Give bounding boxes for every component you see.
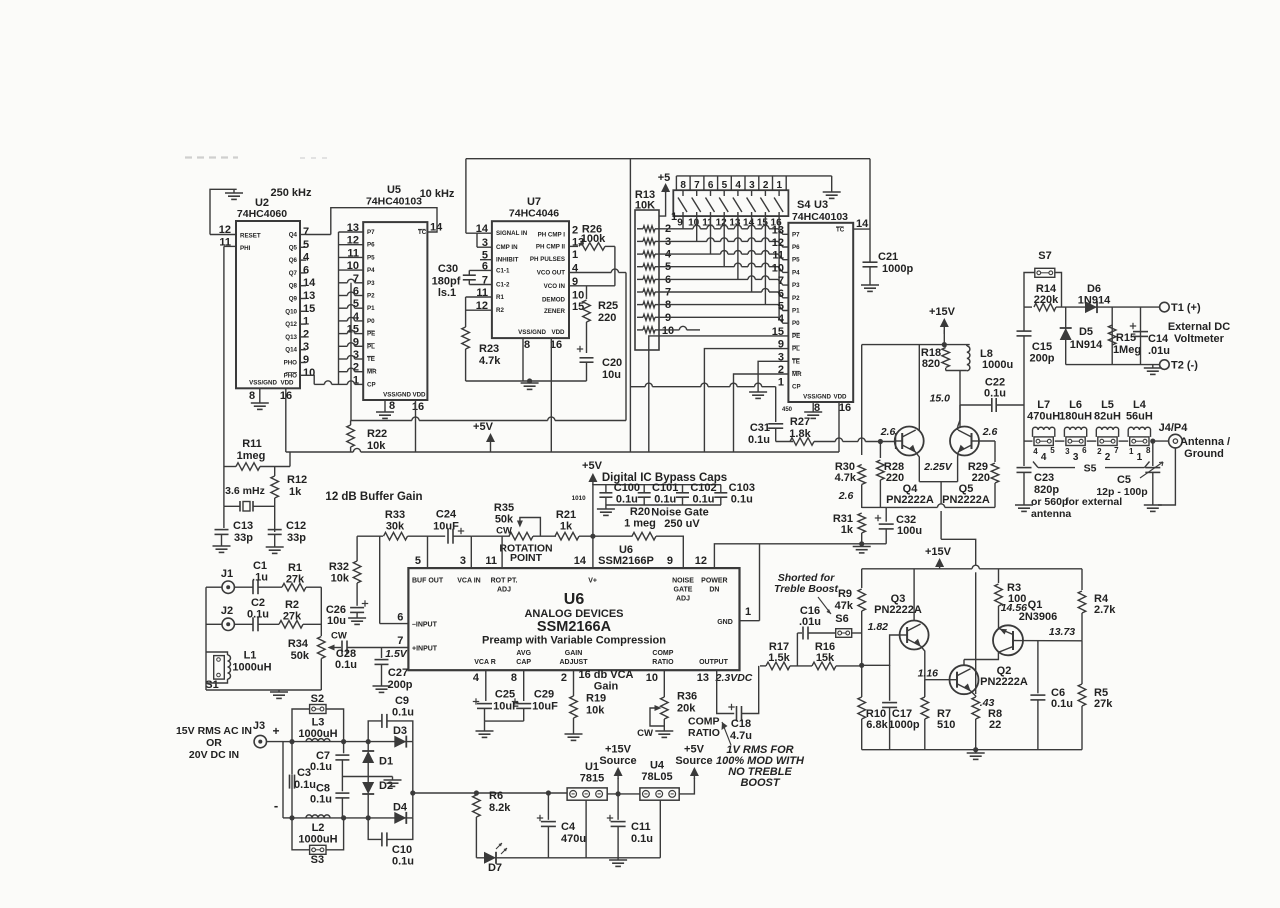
svg-text:2: 2 bbox=[1097, 447, 1102, 456]
svg-text:+15V: +15V bbox=[929, 306, 956, 318]
svg-text:Q13: Q13 bbox=[285, 334, 297, 341]
svg-text:MR: MR bbox=[367, 369, 377, 376]
svg-text:VSS/GND: VSS/GND bbox=[518, 329, 546, 336]
svg-text:PHO: PHO bbox=[284, 372, 298, 379]
svg-text:10uF: 10uF bbox=[433, 521, 459, 533]
svg-text:22: 22 bbox=[989, 719, 1001, 731]
svg-text:CW: CW bbox=[637, 728, 653, 739]
svg-text:Ground: Ground bbox=[1184, 448, 1224, 460]
svg-text:10: 10 bbox=[303, 367, 315, 379]
svg-text:P2: P2 bbox=[792, 295, 800, 302]
svg-text:TC: TC bbox=[836, 227, 845, 234]
svg-text:L2: L2 bbox=[312, 822, 325, 834]
svg-text:Q14: Q14 bbox=[285, 347, 297, 354]
svg-text:POINT: POINT bbox=[510, 552, 543, 564]
svg-text:0.1u: 0.1u bbox=[335, 659, 357, 671]
svg-text:0.1u: 0.1u bbox=[631, 833, 653, 845]
svg-text:C5: C5 bbox=[1117, 474, 1131, 486]
svg-text:12p - 100p: 12p - 100p bbox=[1096, 486, 1147, 498]
svg-text:11: 11 bbox=[485, 555, 497, 567]
svg-text:ls.1: ls.1 bbox=[438, 287, 456, 299]
svg-text:R34: R34 bbox=[288, 638, 309, 650]
svg-text:6: 6 bbox=[397, 612, 403, 624]
svg-text:C102: C102 bbox=[690, 482, 716, 494]
svg-text:VCA IN: VCA IN bbox=[457, 578, 480, 585]
svg-text:+15V: +15V bbox=[925, 546, 952, 558]
svg-text:200p: 200p bbox=[387, 679, 412, 691]
svg-text:VSS/GND: VSS/GND bbox=[383, 392, 411, 399]
svg-text:R32: R32 bbox=[329, 561, 349, 573]
svg-text:R27: R27 bbox=[790, 416, 810, 428]
svg-text:P3: P3 bbox=[367, 280, 375, 287]
svg-text:3.6 mHz: 3.6 mHz bbox=[225, 485, 265, 497]
svg-text:13: 13 bbox=[303, 290, 315, 302]
svg-text:820: 820 bbox=[922, 358, 940, 370]
svg-text:C25: C25 bbox=[495, 689, 515, 701]
svg-text:1: 1 bbox=[745, 606, 751, 618]
svg-text:16: 16 bbox=[412, 401, 424, 413]
svg-text:INHIBIT: INHIBIT bbox=[496, 257, 519, 264]
svg-text:C1-2: C1-2 bbox=[496, 282, 510, 289]
svg-text:74HC4046: 74HC4046 bbox=[509, 208, 559, 220]
svg-text:P0: P0 bbox=[792, 320, 800, 327]
svg-text:R6: R6 bbox=[489, 790, 503, 802]
svg-text:250 kHz: 250 kHz bbox=[271, 187, 312, 199]
svg-text:4: 4 bbox=[473, 672, 480, 684]
svg-text:470uH: 470uH bbox=[1027, 411, 1060, 423]
svg-text:510: 510 bbox=[937, 719, 955, 731]
svg-text:VCO IN: VCO IN bbox=[544, 283, 566, 290]
svg-text:RESET: RESET bbox=[240, 233, 261, 240]
svg-text:8: 8 bbox=[249, 390, 255, 402]
svg-text:T2 (-): T2 (-) bbox=[1171, 360, 1198, 372]
svg-text:PH CMP II: PH CMP II bbox=[536, 243, 565, 250]
svg-text:7: 7 bbox=[303, 226, 309, 238]
svg-text:2.6: 2.6 bbox=[880, 426, 896, 438]
svg-text:P6: P6 bbox=[367, 242, 375, 249]
svg-text:VCO OUT: VCO OUT bbox=[537, 270, 565, 277]
svg-text:L1: L1 bbox=[244, 650, 257, 662]
svg-text:4.7k: 4.7k bbox=[479, 355, 501, 367]
svg-text:U6: U6 bbox=[564, 591, 585, 608]
svg-text:100k: 100k bbox=[581, 233, 606, 245]
svg-text:CMP IN: CMP IN bbox=[496, 244, 518, 251]
svg-text:Q10: Q10 bbox=[285, 308, 297, 315]
svg-text:16 db VCA: 16 db VCA bbox=[578, 669, 633, 681]
svg-text:S6: S6 bbox=[835, 613, 848, 625]
svg-text:L3: L3 bbox=[312, 717, 325, 729]
svg-text:TC: TC bbox=[418, 229, 427, 236]
svg-text:1: 1 bbox=[1129, 447, 1134, 456]
svg-text:78L05: 78L05 bbox=[641, 771, 672, 783]
svg-text:6: 6 bbox=[1082, 446, 1087, 455]
svg-text:P4: P4 bbox=[367, 267, 375, 274]
svg-text:CW: CW bbox=[496, 526, 512, 537]
svg-text:PE: PE bbox=[367, 331, 375, 338]
svg-text:0.1u: 0.1u bbox=[616, 494, 638, 506]
svg-text:DN: DN bbox=[709, 587, 719, 594]
svg-text:Source: Source bbox=[599, 755, 636, 767]
svg-text:1k: 1k bbox=[560, 521, 573, 533]
svg-text:220k: 220k bbox=[1034, 294, 1059, 306]
svg-text:2: 2 bbox=[572, 225, 578, 237]
svg-text:14: 14 bbox=[303, 277, 316, 289]
svg-text:15.0: 15.0 bbox=[930, 393, 951, 405]
svg-text:S4: S4 bbox=[797, 199, 811, 211]
svg-text:0.1u: 0.1u bbox=[1051, 698, 1073, 710]
svg-text:MR: MR bbox=[792, 371, 802, 378]
svg-text:7: 7 bbox=[1114, 446, 1119, 455]
svg-text:3: 3 bbox=[303, 341, 309, 353]
svg-text:Noise Gate: Noise Gate bbox=[651, 507, 708, 519]
svg-text:47k: 47k bbox=[835, 600, 854, 612]
svg-text:antenna: antenna bbox=[1031, 508, 1071, 520]
svg-text:P5: P5 bbox=[792, 257, 800, 264]
svg-text:T1 (+): T1 (+) bbox=[1171, 302, 1201, 314]
svg-text:P1: P1 bbox=[792, 308, 800, 315]
svg-text:4.7u: 4.7u bbox=[730, 730, 752, 742]
svg-text:J1: J1 bbox=[221, 568, 233, 580]
svg-text:R21: R21 bbox=[556, 509, 576, 521]
svg-text:P5: P5 bbox=[367, 254, 375, 261]
svg-text:1.5V: 1.5V bbox=[385, 648, 408, 660]
svg-text:TE: TE bbox=[367, 356, 375, 363]
svg-text:Q7: Q7 bbox=[289, 270, 298, 277]
svg-text:OUTPUT: OUTPUT bbox=[699, 659, 729, 666]
svg-text:1010: 1010 bbox=[572, 495, 587, 502]
svg-text:C101: C101 bbox=[652, 482, 678, 494]
svg-text:2: 2 bbox=[303, 328, 309, 340]
svg-text:4.7k: 4.7k bbox=[835, 472, 857, 484]
svg-text:6.8k: 6.8k bbox=[866, 719, 888, 731]
svg-text:5: 5 bbox=[1050, 446, 1055, 455]
svg-text:5: 5 bbox=[778, 301, 784, 313]
svg-text:R22: R22 bbox=[367, 428, 387, 440]
svg-text:P7: P7 bbox=[792, 231, 800, 238]
svg-text:8: 8 bbox=[524, 339, 530, 351]
svg-text:R25: R25 bbox=[598, 300, 618, 312]
svg-text:GAIN: GAIN bbox=[565, 650, 583, 657]
svg-text:U7: U7 bbox=[527, 196, 541, 208]
svg-text:+5V: +5V bbox=[684, 744, 705, 756]
svg-text:R35: R35 bbox=[494, 502, 514, 514]
svg-text:250 uV: 250 uV bbox=[664, 518, 700, 530]
svg-text:1000p: 1000p bbox=[882, 263, 913, 275]
svg-text:SIGNAL IN: SIGNAL IN bbox=[496, 230, 528, 237]
svg-text:1meg: 1meg bbox=[237, 450, 266, 462]
svg-text:R2: R2 bbox=[285, 599, 299, 611]
svg-text:27k: 27k bbox=[286, 574, 305, 586]
svg-text:COMP: COMP bbox=[688, 716, 720, 728]
svg-text:1: 1 bbox=[1137, 452, 1143, 463]
svg-text:13: 13 bbox=[697, 672, 709, 684]
svg-text:L4: L4 bbox=[1133, 399, 1147, 411]
svg-text:D1: D1 bbox=[379, 756, 393, 768]
svg-text:2.6: 2.6 bbox=[838, 490, 854, 502]
svg-text:5: 5 bbox=[415, 555, 421, 567]
svg-text:9: 9 bbox=[667, 555, 673, 567]
svg-text:Q12: Q12 bbox=[285, 321, 297, 328]
svg-text:2.3VDC: 2.3VDC bbox=[715, 672, 753, 684]
svg-text:1: 1 bbox=[572, 249, 578, 261]
svg-text:2.6: 2.6 bbox=[982, 426, 998, 438]
svg-text:V+: V+ bbox=[588, 578, 597, 585]
svg-text:12: 12 bbox=[772, 237, 784, 249]
svg-text:1k: 1k bbox=[841, 524, 854, 536]
svg-text:PHO: PHO bbox=[284, 360, 298, 367]
svg-text:3: 3 bbox=[460, 555, 466, 567]
svg-text:12: 12 bbox=[695, 555, 707, 567]
svg-text:D4: D4 bbox=[393, 802, 408, 814]
svg-text:P6: P6 bbox=[792, 244, 800, 251]
svg-text:8: 8 bbox=[389, 400, 395, 412]
svg-text:10k: 10k bbox=[331, 573, 350, 585]
svg-text:C31: C31 bbox=[750, 422, 770, 434]
svg-text:R1: R1 bbox=[496, 294, 504, 301]
svg-text:0.1u: 0.1u bbox=[294, 779, 316, 791]
svg-text:50k: 50k bbox=[291, 650, 310, 662]
svg-text:74HC40103: 74HC40103 bbox=[792, 211, 848, 223]
svg-text:1.5k: 1.5k bbox=[768, 652, 790, 664]
svg-text:VSS/GND: VSS/GND bbox=[249, 380, 277, 387]
svg-text:C1-1: C1-1 bbox=[496, 267, 510, 274]
svg-text:20V DC IN: 20V DC IN bbox=[189, 749, 239, 761]
svg-text:0.1u: 0.1u bbox=[392, 707, 414, 719]
svg-text:+INPUT: +INPUT bbox=[412, 646, 438, 653]
svg-text:AVG: AVG bbox=[516, 650, 531, 657]
svg-text:15: 15 bbox=[572, 301, 584, 313]
svg-text:27k: 27k bbox=[283, 611, 302, 623]
svg-text:16: 16 bbox=[839, 402, 851, 414]
svg-text:56uH: 56uH bbox=[1126, 411, 1153, 423]
svg-text:Source: Source bbox=[675, 755, 712, 767]
svg-text:S5: S5 bbox=[1084, 463, 1097, 475]
svg-text:Treble Boost: Treble Boost bbox=[774, 583, 838, 595]
svg-text:D3: D3 bbox=[393, 725, 407, 737]
svg-text:D5: D5 bbox=[1079, 326, 1093, 338]
svg-text:VSS/GND: VSS/GND bbox=[803, 394, 831, 401]
svg-text:7: 7 bbox=[778, 275, 784, 287]
svg-text:Antenna /: Antenna / bbox=[1180, 436, 1230, 448]
svg-text:0.1u: 0.1u bbox=[692, 494, 714, 506]
svg-text:DEMOD: DEMOD bbox=[542, 297, 566, 304]
svg-text:2.25V: 2.25V bbox=[923, 461, 952, 473]
svg-text:D7: D7 bbox=[488, 862, 502, 874]
svg-text:12 dB Buffer Gain: 12 dB Buffer Gain bbox=[325, 491, 422, 503]
svg-text:450: 450 bbox=[782, 407, 793, 413]
svg-text:10k: 10k bbox=[367, 440, 386, 452]
svg-text:27k: 27k bbox=[1094, 698, 1113, 710]
svg-text:+: + bbox=[272, 724, 279, 738]
svg-text:D6: D6 bbox=[1087, 283, 1101, 295]
svg-text:ROT PT.: ROT PT. bbox=[491, 578, 518, 585]
svg-text:7: 7 bbox=[397, 635, 403, 647]
svg-text:C14: C14 bbox=[1148, 333, 1169, 345]
svg-text:+5V: +5V bbox=[473, 421, 494, 433]
svg-text:C27: C27 bbox=[388, 667, 408, 679]
svg-text:2.7k: 2.7k bbox=[1094, 604, 1116, 616]
svg-text:C12: C12 bbox=[286, 520, 306, 532]
svg-text:R11: R11 bbox=[242, 438, 262, 450]
svg-text:BOOST: BOOST bbox=[740, 777, 780, 789]
svg-text:CP: CP bbox=[367, 381, 376, 388]
svg-text:L7: L7 bbox=[1037, 399, 1050, 411]
svg-text:L6: L6 bbox=[1069, 399, 1082, 411]
svg-text:1: 1 bbox=[671, 211, 677, 223]
svg-text:10: 10 bbox=[646, 672, 658, 684]
svg-text:SSM2166P: SSM2166P bbox=[598, 555, 654, 567]
svg-text:200p: 200p bbox=[1029, 353, 1054, 365]
svg-text:+15V: +15V bbox=[605, 744, 632, 756]
svg-text:4: 4 bbox=[1041, 452, 1047, 463]
svg-text:PN2222A: PN2222A bbox=[886, 494, 934, 506]
svg-text:10: 10 bbox=[572, 290, 584, 302]
svg-text:4: 4 bbox=[303, 252, 310, 264]
svg-text:PN2222A: PN2222A bbox=[942, 494, 990, 506]
svg-text:0.1u: 0.1u bbox=[748, 434, 770, 446]
svg-text:External DC: External DC bbox=[1168, 321, 1230, 333]
svg-text:P7: P7 bbox=[367, 229, 375, 236]
svg-text:R12: R12 bbox=[287, 474, 307, 486]
svg-text:820p: 820p bbox=[1034, 484, 1059, 496]
svg-text:10k: 10k bbox=[586, 705, 605, 717]
svg-text:2: 2 bbox=[1105, 452, 1111, 463]
svg-text:100u: 100u bbox=[897, 525, 922, 537]
svg-text:S3: S3 bbox=[311, 854, 324, 866]
svg-text:10u: 10u bbox=[602, 369, 621, 381]
svg-text:ADJ: ADJ bbox=[497, 587, 511, 594]
svg-text:0.1u: 0.1u bbox=[731, 494, 753, 506]
svg-text:4: 4 bbox=[778, 313, 785, 325]
svg-text:82uH: 82uH bbox=[1094, 411, 1121, 423]
svg-text:J3: J3 bbox=[253, 720, 265, 732]
svg-text:VCA R: VCA R bbox=[474, 659, 496, 666]
svg-text:Q6: Q6 bbox=[289, 257, 298, 264]
svg-text:L5: L5 bbox=[1101, 399, 1114, 411]
svg-text:PH PULSES: PH PULSES bbox=[530, 256, 565, 263]
svg-text:GND: GND bbox=[717, 619, 733, 626]
svg-text:13.73: 13.73 bbox=[1049, 626, 1075, 638]
svg-text:1.16: 1.16 bbox=[918, 668, 939, 680]
svg-text:7815: 7815 bbox=[580, 773, 604, 785]
svg-text:.01u: .01u bbox=[799, 616, 821, 628]
svg-text:Q8: Q8 bbox=[289, 283, 298, 290]
svg-text:C15: C15 bbox=[1032, 341, 1052, 353]
svg-text:6: 6 bbox=[303, 264, 309, 276]
svg-text:20k: 20k bbox=[677, 703, 696, 715]
svg-text:.1u: .1u bbox=[252, 572, 268, 584]
svg-text:Voltmeter: Voltmeter bbox=[1174, 333, 1225, 345]
svg-text:VDD: VDD bbox=[412, 392, 426, 399]
svg-text:1000p: 1000p bbox=[888, 719, 919, 731]
svg-text:14: 14 bbox=[574, 555, 587, 567]
svg-text:PH CMP I: PH CMP I bbox=[538, 232, 566, 239]
svg-text:15k: 15k bbox=[816, 652, 835, 664]
svg-text:Q1: Q1 bbox=[1028, 599, 1043, 611]
svg-text:RATIO: RATIO bbox=[652, 659, 674, 666]
svg-text:1k: 1k bbox=[289, 486, 302, 498]
svg-text:30k: 30k bbox=[386, 521, 405, 533]
svg-text:1000uH: 1000uH bbox=[232, 662, 271, 674]
svg-text:10 kHz: 10 kHz bbox=[420, 188, 455, 200]
svg-text:SSM2166A: SSM2166A bbox=[537, 619, 612, 635]
svg-text:1N914: 1N914 bbox=[1070, 339, 1103, 351]
svg-text:0.1u: 0.1u bbox=[984, 388, 1006, 400]
svg-text:50k: 50k bbox=[495, 514, 514, 526]
svg-text:J4/P4: J4/P4 bbox=[1159, 422, 1189, 434]
svg-text:10u: 10u bbox=[327, 615, 346, 627]
svg-text:or 560p: or 560p bbox=[1031, 496, 1068, 508]
svg-text:U1: U1 bbox=[585, 761, 599, 773]
svg-text:10K: 10K bbox=[635, 200, 655, 212]
svg-text:C18: C18 bbox=[731, 718, 751, 730]
svg-text:P0: P0 bbox=[367, 318, 375, 325]
svg-text:C3: C3 bbox=[297, 767, 311, 779]
svg-text:C11: C11 bbox=[631, 821, 651, 833]
svg-text:74HC4060: 74HC4060 bbox=[237, 208, 287, 220]
svg-text:P4: P4 bbox=[792, 269, 800, 276]
svg-text:8.2k: 8.2k bbox=[489, 802, 511, 814]
svg-text:10uF: 10uF bbox=[532, 701, 558, 713]
svg-text:C9: C9 bbox=[395, 695, 409, 707]
svg-text:1 meg: 1 meg bbox=[624, 518, 656, 530]
svg-text:-: - bbox=[274, 798, 278, 813]
svg-text:BUF OUT: BUF OUT bbox=[412, 578, 444, 585]
svg-text:R9: R9 bbox=[838, 588, 852, 600]
svg-text:R33: R33 bbox=[385, 509, 405, 521]
svg-text:R1: R1 bbox=[288, 562, 302, 574]
svg-text:C4: C4 bbox=[561, 821, 576, 833]
svg-text:–INPUT: –INPUT bbox=[412, 622, 438, 629]
svg-text:NOISE: NOISE bbox=[672, 578, 694, 585]
svg-text:PL: PL bbox=[367, 343, 375, 350]
svg-text:0.1u: 0.1u bbox=[310, 761, 332, 773]
svg-text:CW: CW bbox=[331, 631, 347, 642]
svg-text:180pf: 180pf bbox=[432, 276, 461, 288]
svg-text:15: 15 bbox=[303, 303, 315, 315]
svg-text:11: 11 bbox=[772, 250, 784, 262]
svg-text:4: 4 bbox=[1033, 447, 1038, 456]
svg-text:C20: C20 bbox=[602, 357, 622, 369]
svg-text:0.1u: 0.1u bbox=[392, 856, 414, 868]
svg-text:R23: R23 bbox=[479, 343, 499, 355]
svg-text:33p: 33p bbox=[234, 532, 253, 544]
svg-text:1N914: 1N914 bbox=[1078, 295, 1111, 307]
svg-text:3: 3 bbox=[1073, 452, 1079, 463]
svg-text:VDD: VDD bbox=[280, 380, 294, 387]
svg-text:Preamp with Variable Compressi: Preamp with Variable Compression bbox=[482, 635, 666, 647]
svg-text:POWER: POWER bbox=[701, 578, 727, 585]
svg-text:Q4: Q4 bbox=[289, 232, 298, 239]
svg-text:6: 6 bbox=[778, 288, 784, 300]
svg-text:C24: C24 bbox=[436, 509, 457, 521]
svg-text:1.82: 1.82 bbox=[868, 621, 889, 633]
svg-text:10: 10 bbox=[662, 325, 674, 337]
svg-text:C29: C29 bbox=[534, 689, 554, 701]
svg-text:S1: S1 bbox=[205, 679, 218, 691]
svg-text:C1: C1 bbox=[253, 560, 267, 572]
svg-text:RATIO: RATIO bbox=[688, 727, 720, 739]
svg-text:9: 9 bbox=[303, 354, 309, 366]
svg-text:Gain: Gain bbox=[594, 681, 619, 693]
svg-text:C103: C103 bbox=[729, 482, 755, 494]
svg-text:8: 8 bbox=[1146, 446, 1151, 455]
svg-text:74HC40103: 74HC40103 bbox=[366, 196, 422, 208]
svg-text:1: 1 bbox=[778, 377, 784, 389]
svg-text:0.1u: 0.1u bbox=[310, 794, 332, 806]
svg-text:+5V: +5V bbox=[582, 460, 603, 472]
svg-text:.43: .43 bbox=[980, 697, 995, 709]
